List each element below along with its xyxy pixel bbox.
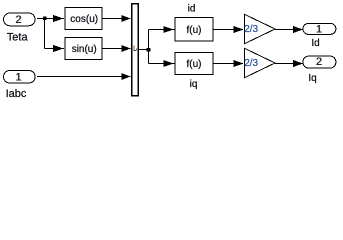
wire branch vertical: [148, 30, 150, 64]
wire iabc to mux: [37, 76, 131, 78]
svg-text:f(u): f(u): [187, 59, 202, 70]
svg-text:2/3: 2/3: [244, 24, 258, 35]
port number 1: [15, 72, 22, 84]
wire to f(u) top: [149, 29, 175, 31]
mux: [132, 4, 139, 96]
arrowhead into cos: [53, 15, 63, 22]
svg-text:Iq: Iq: [308, 73, 316, 84]
input port 2 (Teta) oval: [4, 13, 36, 26]
block sin(u): [65, 37, 102, 59]
svg-text:2/3: 2/3: [244, 58, 258, 69]
block f(u) iq: [175, 52, 213, 74]
arrowhead iabc to mux: [121, 73, 130, 80]
wire gain bottom to out2: [275, 63, 302, 65]
arrowhead cos to mux: [121, 15, 130, 22]
wire f(u) bottom to gain: [213, 63, 243, 65]
port number 1 out: [315, 23, 322, 35]
block cos(u): [65, 7, 102, 29]
wire cos out to mux: [103, 18, 131, 20]
arrowhead sin to mux: [121, 45, 130, 52]
wire branch down to sin: [44, 19, 46, 49]
svg-text:cos(u): cos(u): [70, 14, 98, 25]
arrowhead into out1: [293, 26, 303, 33]
gain triangle 2/3 bottom: [244, 48, 275, 78]
svg-text:2: 2: [316, 56, 322, 68]
svg-text:f(u): f(u): [187, 25, 202, 36]
mux tiny u glyph: [133, 45, 137, 51]
wire oval2 to cos: [37, 18, 64, 20]
junction dot B: [147, 48, 151, 52]
arrowhead into out2: [293, 60, 303, 67]
wire f(u) top to gain: [213, 29, 243, 31]
wire mux out: [139, 49, 149, 51]
svg-text:2: 2: [15, 14, 21, 26]
svg-text:1: 1: [316, 23, 322, 35]
output port 2 (Iq) oval: [303, 56, 336, 68]
arrowhead into sin: [53, 45, 63, 52]
svg-text:Teta: Teta: [7, 32, 29, 44]
svg-text:Id: Id: [311, 38, 319, 49]
svg-text:sin(u): sin(u): [72, 44, 97, 55]
arrowhead into gain top: [233, 26, 243, 33]
gain triangle 2/3 top: [244, 14, 275, 44]
arrowhead into gain bottom: [233, 60, 243, 67]
arrowhead into f(u) top: [163, 26, 173, 33]
wire gain top to out1: [275, 29, 302, 31]
svg-text:id: id: [188, 4, 196, 15]
wire sin out to mux: [103, 48, 131, 50]
svg-text:iq: iq: [190, 79, 198, 90]
port number 2: [15, 14, 22, 26]
output port 1 (Id) oval: [303, 23, 336, 34]
port number 2 out: [315, 56, 322, 68]
junction dot A: [43, 17, 47, 20]
svg-text:1: 1: [15, 72, 21, 84]
svg-text:Iabc: Iabc: [6, 88, 27, 100]
arrowhead into f(u) bottom: [163, 60, 173, 67]
input port 1 (Iabc) oval: [4, 71, 36, 84]
block f(u) id: [175, 17, 213, 40]
wire to f(u) bottom: [149, 63, 175, 65]
